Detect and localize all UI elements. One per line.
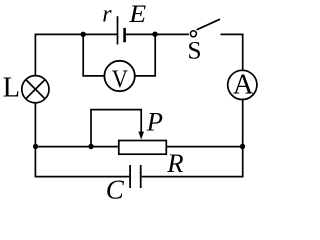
- switch S lever: [197, 19, 220, 30]
- battery E short plate: [123, 28, 126, 42]
- svg-text:C: C: [106, 175, 125, 202]
- wire voltmeter left branch: [83, 34, 104, 76]
- lamp L: [22, 76, 49, 103]
- battery E long plate: [117, 16, 119, 44]
- switch S pivot circle: [190, 31, 196, 37]
- node junction dot right middle: [240, 144, 245, 149]
- ammeter A: [228, 70, 257, 99]
- wiper arrowhead P: [138, 132, 144, 140]
- svg-text:R: R: [166, 148, 183, 178]
- svg-text:S: S: [187, 36, 201, 65]
- node junction dot left of battery: [81, 32, 86, 37]
- wire: [221, 34, 243, 70]
- node junction dot at wiper tap: [88, 144, 93, 149]
- wire voltmeter right branch: [135, 34, 156, 76]
- svg-text:P: P: [146, 107, 163, 137]
- voltmeter V: [104, 61, 134, 91]
- capacitor C left plate: [129, 165, 131, 188]
- wire: [166, 146, 242, 148]
- wire: [125, 33, 189, 35]
- svg-text:A: A: [233, 70, 254, 101]
- wire: [35, 146, 118, 148]
- wire: [35, 34, 117, 76]
- svg-text:L: L: [3, 72, 20, 103]
- resistor R box: [119, 141, 167, 155]
- node junction dot left middle: [33, 144, 38, 149]
- svg-text:r: r: [102, 2, 112, 28]
- wire: [35, 103, 129, 177]
- node junction dot right of battery: [152, 32, 157, 37]
- capacitor C right plate: [140, 165, 142, 188]
- svg-text:V: V: [112, 65, 129, 93]
- wire wiper arm: [91, 110, 141, 147]
- svg-text:E: E: [128, 0, 146, 28]
- wire: [142, 100, 243, 177]
